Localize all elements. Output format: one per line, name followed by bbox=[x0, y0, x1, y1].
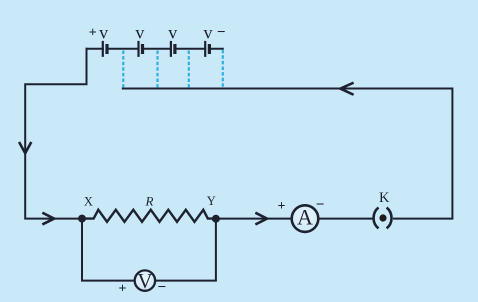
svg-text:+: + bbox=[119, 282, 127, 297]
svg-text:+: + bbox=[278, 199, 286, 214]
svg-text:X: X bbox=[84, 194, 93, 208]
svg-text:v: v bbox=[99, 22, 108, 42]
svg-text:−: − bbox=[217, 25, 226, 41]
svg-text:V: V bbox=[137, 269, 152, 293]
svg-text:K: K bbox=[379, 190, 390, 206]
svg-text:v: v bbox=[204, 22, 213, 42]
svg-text:v: v bbox=[168, 22, 177, 42]
svg-text:v: v bbox=[135, 22, 144, 42]
svg-text:−: − bbox=[158, 279, 167, 295]
svg-text:Y: Y bbox=[207, 194, 216, 208]
svg-text:−: − bbox=[316, 197, 325, 213]
svg-text:A: A bbox=[297, 204, 313, 229]
svg-text:+: + bbox=[89, 26, 97, 41]
svg-text:R: R bbox=[145, 193, 154, 208]
